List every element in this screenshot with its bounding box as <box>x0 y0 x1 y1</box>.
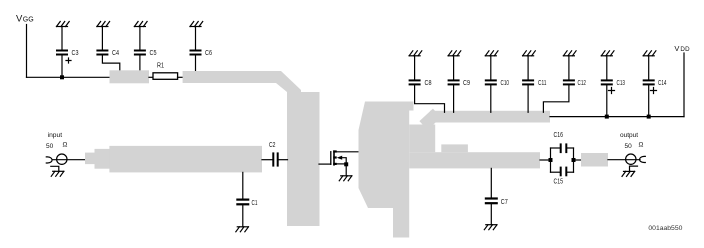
wire C3 bottom <box>61 56 63 78</box>
drain stub <box>333 150 337 152</box>
ground above C4 <box>97 22 110 27</box>
svg-text:C6: C6 <box>205 50 212 57</box>
svg-text:C13: C13 <box>617 80 626 87</box>
svg-text:R1: R1 <box>157 63 164 70</box>
ground above C11 <box>523 51 536 56</box>
svg-text:50: 50 <box>625 143 633 150</box>
wire C8 top <box>414 56 416 80</box>
svg-text:C3: C3 <box>72 50 79 57</box>
resistor R1 <box>153 63 178 80</box>
capacitor C7 <box>485 197 508 206</box>
svg-text:C4: C4 <box>112 50 119 57</box>
wire C1 bottom <box>242 205 244 226</box>
wire C1 top <box>242 172 244 198</box>
wire port to line <box>53 159 86 161</box>
junction C13/VDD bus <box>605 115 609 119</box>
ground above C10 <box>485 51 498 56</box>
wire C14 top <box>648 56 650 80</box>
ground above C6 <box>190 22 203 27</box>
capacitor C4 <box>96 50 119 58</box>
wire C14 bottom <box>648 85 650 116</box>
microstrip drain bias bar <box>430 111 550 123</box>
svg-text:Ω: Ω <box>639 142 644 149</box>
gate bar <box>330 152 332 165</box>
microstrip drain block <box>359 102 414 238</box>
net VDD label <box>674 44 690 53</box>
node right of C15/C16 <box>573 148 575 172</box>
wire C10 bottom <box>490 85 492 112</box>
source stub <box>333 163 337 165</box>
wire C2 to stub <box>279 159 288 161</box>
svg-text:C5: C5 <box>150 50 157 57</box>
body wire <box>342 158 346 165</box>
capacitor C3 <box>56 50 79 64</box>
connector arc input <box>46 157 52 163</box>
net VGG label <box>16 14 34 25</box>
wire C6 top <box>195 27 197 50</box>
svg-text:C9: C9 <box>463 80 470 87</box>
wire source to ground <box>345 164 347 176</box>
microstrip TL1 gate bias <box>110 70 150 83</box>
wire C13 top <box>606 56 608 80</box>
microstrip bend block to drain bias bar <box>424 113 438 126</box>
microstrip input step2 <box>95 149 110 169</box>
svg-text:GG: GG <box>23 17 34 24</box>
ground input port <box>51 171 64 176</box>
wire C10 top <box>490 56 492 80</box>
svg-text:C7: C7 <box>501 199 508 206</box>
capacitor C12 <box>563 79 586 87</box>
port circle input <box>57 154 67 164</box>
ground above C13 <box>601 51 614 56</box>
wire C11 bottom <box>527 85 529 112</box>
ground above C12 <box>563 51 576 56</box>
ground above C5 <box>134 22 147 27</box>
microstrip output short line <box>581 153 608 167</box>
wire C4 bottom jog <box>102 56 119 71</box>
ground above C3 <box>57 22 70 27</box>
svg-text:C16: C16 <box>554 132 564 139</box>
wire C7 bottom <box>490 204 492 224</box>
capacitor C15 <box>551 167 574 186</box>
wire C8 bottom jog <box>415 85 445 112</box>
capacitor C8 <box>409 79 432 87</box>
wire TL1 to R1 <box>149 76 153 78</box>
microstrip output step <box>441 144 468 152</box>
svg-text:C1: C1 <box>252 200 258 207</box>
wire C9 bottom <box>453 85 455 112</box>
microstrip input step1 <box>85 153 95 165</box>
ground Q1 source <box>339 176 352 181</box>
microstrip drain block wide section <box>409 125 435 153</box>
capacitor C2 <box>269 142 279 167</box>
wire C5 top <box>139 27 141 50</box>
svg-text:C10: C10 <box>501 80 510 87</box>
connector arc output <box>640 156 646 162</box>
wire C12 top <box>568 56 570 80</box>
wire strip to output port <box>608 159 640 161</box>
wire R1 to TL2 <box>178 76 184 78</box>
ground above C9 <box>448 51 461 56</box>
wire C5 bottom <box>139 56 141 71</box>
svg-text:V: V <box>674 44 679 53</box>
microstrip TL2 gate bias <box>183 71 281 83</box>
wire line to C2 <box>262 159 272 161</box>
svg-text:50: 50 <box>46 143 54 150</box>
port ground branch output <box>630 166 638 171</box>
capacitor C9 <box>448 79 470 87</box>
svg-text:C2: C2 <box>269 142 276 149</box>
ground output port <box>622 171 635 176</box>
svg-text:C8: C8 <box>425 80 432 87</box>
junction source/body <box>344 162 348 166</box>
wire C4 top <box>101 27 103 50</box>
ground C7 <box>484 225 497 230</box>
microstrip bend TL2 to stub <box>276 71 301 92</box>
capacitor C10 <box>485 79 509 87</box>
junction C14/VDD bus <box>647 115 651 119</box>
svg-text:C11: C11 <box>538 80 547 87</box>
svg-text:DD: DD <box>680 46 690 53</box>
node left of C15/C16 <box>550 148 552 172</box>
wire C12 bottom jog <box>543 85 569 112</box>
source wire <box>337 163 347 165</box>
label output <box>620 132 644 150</box>
wire node to output strip <box>574 159 582 161</box>
wire stub to gate <box>319 163 331 165</box>
wire drain <box>337 151 360 153</box>
capacitor C11 <box>522 79 546 87</box>
capacitor C6 <box>190 50 213 58</box>
microstrip input line <box>109 146 262 173</box>
wire VDD bus <box>550 116 684 118</box>
wire C3 top <box>61 27 63 50</box>
transistor Q1 <box>331 150 348 166</box>
svg-text:input: input <box>48 132 63 139</box>
capacitor C1 <box>236 199 257 208</box>
ground above C14 <box>643 51 656 56</box>
label input <box>46 132 68 150</box>
svg-text:C15: C15 <box>554 179 564 186</box>
capacitor C5 <box>134 50 157 58</box>
wire line to C15/C16 node <box>540 159 551 161</box>
svg-text:C14: C14 <box>658 80 667 87</box>
body stub <box>333 156 337 158</box>
wire C11 top <box>527 56 529 80</box>
body arrow <box>337 156 342 160</box>
capacitor C13 <box>601 79 625 93</box>
wire C6 bottom <box>195 56 197 72</box>
svg-text:C12: C12 <box>578 80 587 87</box>
junction C3/bus <box>60 75 64 79</box>
wire C7 top <box>490 168 492 197</box>
wire VGG down <box>26 25 28 78</box>
port circle output <box>626 154 636 164</box>
wire VGG bus to TL1 <box>27 76 111 78</box>
wire C9 top <box>453 56 455 80</box>
ground above C8 <box>409 51 422 56</box>
svg-text:001aab550: 001aab550 <box>648 225 682 232</box>
wire C13 bottom <box>606 85 608 116</box>
microstrip output line <box>409 152 540 168</box>
capacitor C14 <box>643 79 667 93</box>
capacitor C16 <box>551 132 574 153</box>
svg-text:Ω: Ω <box>63 142 68 149</box>
wire VDD down <box>683 53 685 117</box>
microstrip gate stub TL3 <box>287 92 320 226</box>
svg-text:output: output <box>620 132 638 139</box>
ground C1 <box>236 227 249 232</box>
channel bar <box>333 150 335 165</box>
port ground branch input <box>51 166 59 171</box>
